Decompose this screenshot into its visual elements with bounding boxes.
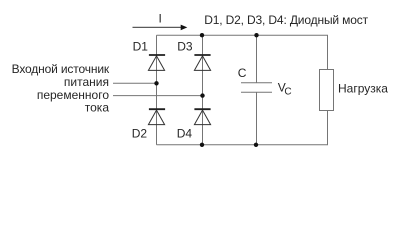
svg-text:I: I xyxy=(159,11,162,25)
svg-text:питания: питания xyxy=(64,75,109,89)
svg-text:C: C xyxy=(284,86,291,97)
svg-text:тока: тока xyxy=(85,101,110,115)
svg-text:D2: D2 xyxy=(132,126,148,140)
svg-text:D3: D3 xyxy=(177,39,193,53)
svg-text:Нагрузка: Нагрузка xyxy=(338,81,388,95)
svg-text:D1: D1 xyxy=(133,39,149,53)
svg-text:D4: D4 xyxy=(177,126,193,140)
svg-text:D1, D2, D3, D4: Диодный мост: D1, D2, D3, D4: Диодный мост xyxy=(204,13,368,27)
svg-text:C: C xyxy=(238,66,247,80)
